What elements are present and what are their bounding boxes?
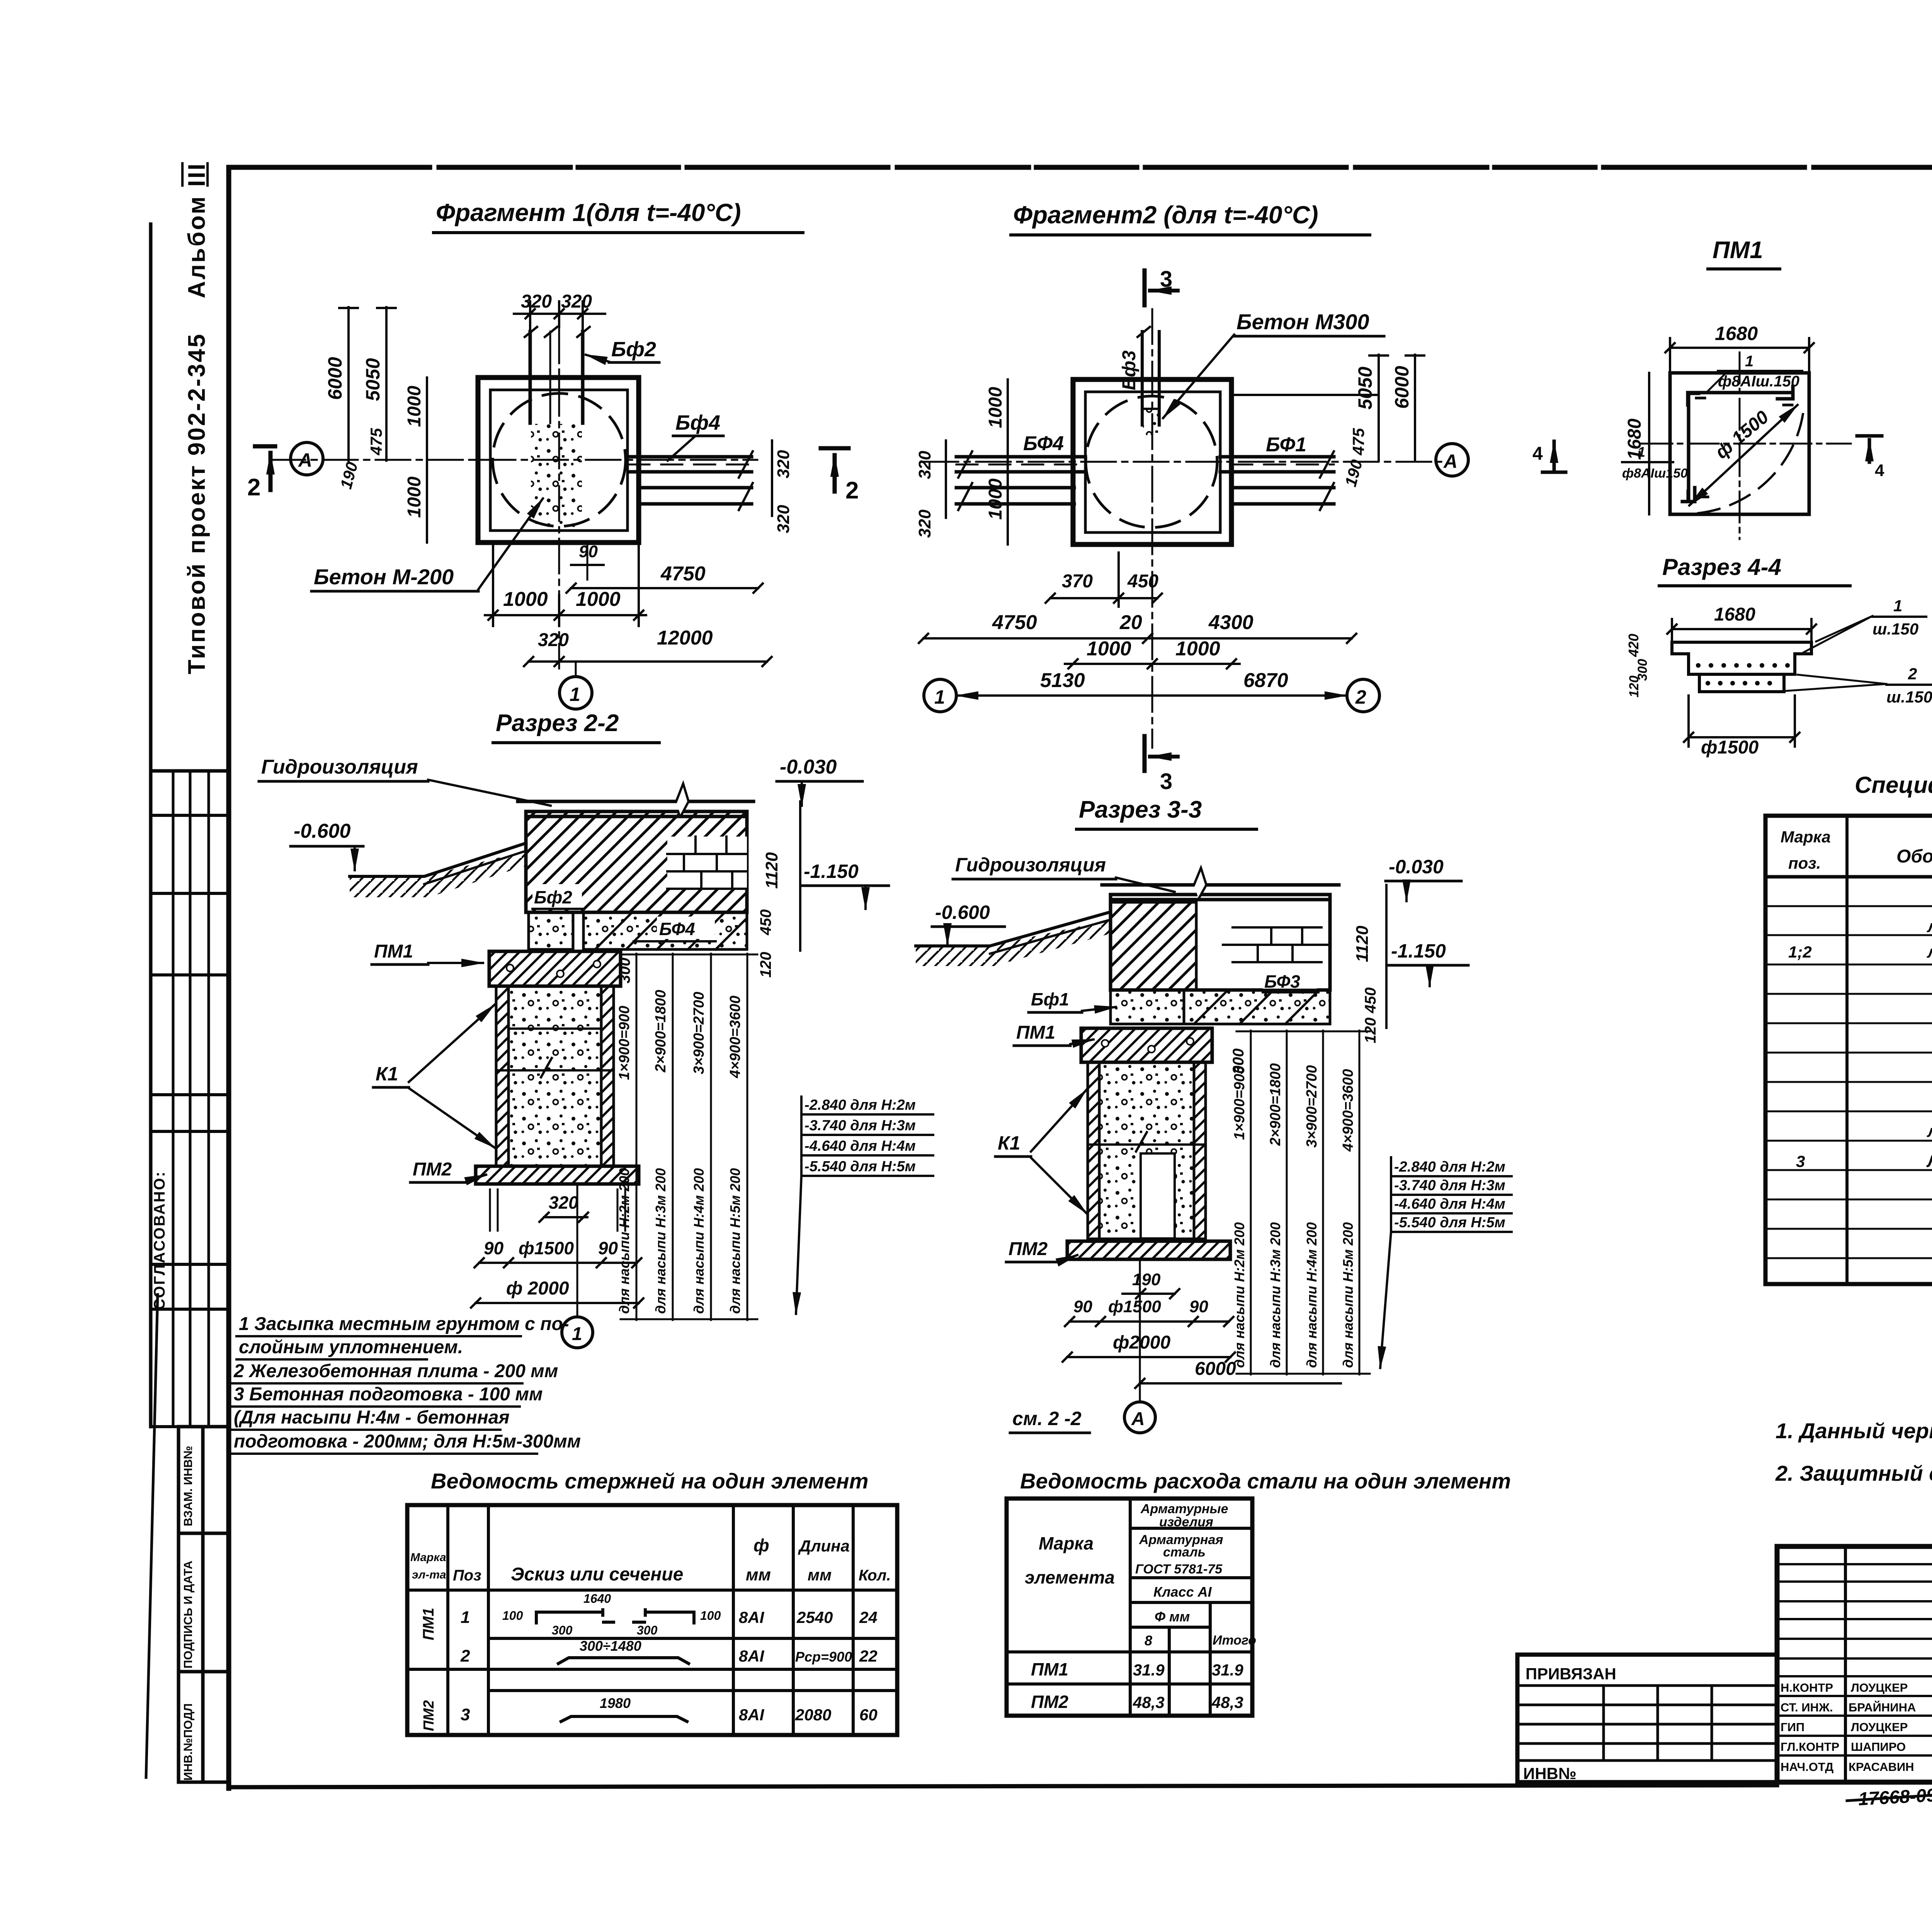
svg-text:120: 120 bbox=[757, 952, 774, 978]
svg-text:А: А bbox=[1443, 451, 1458, 472]
PM1 axis crosshair bbox=[1641, 443, 1851, 445]
svg-text:ПМ2: ПМ2 bbox=[1031, 1692, 1068, 1712]
svg-text:24: 24 bbox=[859, 1608, 878, 1626]
svg-text:-0.600: -0.600 bbox=[294, 820, 351, 842]
axis circle 1 (fragment 1) bbox=[560, 677, 592, 709]
svg-text:БФ1: БФ1 bbox=[1266, 434, 1306, 456]
svg-text:1000: 1000 bbox=[985, 387, 1006, 428]
brick patch in wall 3-3 bbox=[1223, 927, 1330, 962]
vedomost sterzhney table frame bbox=[407, 1505, 897, 1735]
beams band below wall 3-3 bbox=[1111, 990, 1184, 1024]
ground surface 3-3 bbox=[916, 912, 1111, 946]
svg-text:ш.150: ш.150 bbox=[1886, 688, 1932, 706]
beam BF3 plan (thin top strip) bbox=[1138, 327, 1159, 425]
svg-text:ИНВ.№ПОДЛ: ИНВ.№ПОДЛ bbox=[181, 1703, 195, 1781]
svg-text:ф: ф bbox=[753, 1535, 769, 1555]
axis circle 1 (2-2) bbox=[562, 1317, 593, 1348]
svg-text:1000: 1000 bbox=[404, 386, 425, 427]
svg-text:3: 3 bbox=[1160, 769, 1172, 794]
svg-text:Разрез 4-4: Разрез 4-4 bbox=[1662, 554, 1781, 580]
fragment 1 outer square bbox=[478, 378, 639, 543]
fragment 1 dashed pile circle bbox=[493, 393, 626, 526]
svg-text:Бф2: Бф2 bbox=[611, 338, 656, 361]
left lower stamp box bbox=[179, 1427, 229, 1782]
pier top plate PM1 (3-3) bbox=[1081, 1028, 1212, 1062]
svg-text:Н.КОНТР: Н.КОНТР bbox=[1781, 1681, 1833, 1694]
fragment 2 title underline bbox=[1011, 233, 1370, 236]
svg-text:-2.840 для Н:2м: -2.840 для Н:2м bbox=[804, 1097, 916, 1113]
svg-text:Типовой проект 902-2-345: Типовой проект 902-2-345 bbox=[184, 333, 210, 674]
svg-text:ШАПИРО: ШАПИРО bbox=[1851, 1740, 1906, 1754]
svg-text:90: 90 bbox=[579, 542, 598, 561]
svg-text:22: 22 bbox=[859, 1647, 878, 1665]
label BF2 in wall bbox=[532, 884, 582, 908]
svg-text:3×900=2700: 3×900=2700 bbox=[1304, 1065, 1320, 1148]
svg-text:Фрагмент 1(для t=-40°С): Фрагмент 1(для t=-40°С) bbox=[436, 199, 741, 226]
soil hatch band 2-2 bbox=[350, 851, 526, 897]
svg-text:190: 190 bbox=[1132, 1270, 1161, 1289]
levels stack (2-2) bbox=[804, 1097, 916, 1175]
beam BF2 plan (top strip) bbox=[525, 327, 590, 423]
pier bottom plate PM2 (3-3) bbox=[1067, 1241, 1230, 1259]
title block vertical dividers left part bbox=[1845, 1546, 1932, 1782]
svg-text:лист4: лист4 bbox=[1927, 917, 1932, 936]
PM1 left rebar with hooks bbox=[1682, 393, 1708, 502]
PM1 left dim 1680 rotated bbox=[1648, 373, 1650, 514]
left dim line 1000/1000 bbox=[1007, 379, 1009, 544]
section mark 4 right of PM1 bbox=[1857, 434, 1882, 438]
wall block 2-2 hatched bbox=[526, 811, 747, 912]
svg-text:ПМ1: ПМ1 bbox=[1031, 1659, 1068, 1679]
PM1 dashed pile arc bbox=[1698, 409, 1804, 513]
svg-text:4: 4 bbox=[1875, 461, 1884, 480]
svg-text:ПМ1: ПМ1 bbox=[1713, 237, 1763, 264]
specification table column lines bbox=[1847, 816, 1932, 1284]
svg-text:подготовка - 200мм; для Н:5м-3: подготовка - 200мм; для Н:5м-300мм bbox=[234, 1431, 581, 1452]
svg-text:НАЧ.ОТД: НАЧ.ОТД bbox=[1781, 1760, 1833, 1774]
svg-text:4: 4 bbox=[1532, 444, 1543, 464]
svg-text:-2.840 для Н:2м: -2.840 для Н:2м bbox=[1394, 1159, 1505, 1175]
specification table frame bbox=[1765, 816, 1932, 1284]
svg-text:ш.150: ш.150 bbox=[1872, 620, 1918, 638]
svg-text:2×900=1800: 2×900=1800 bbox=[1267, 1063, 1284, 1146]
svg-text:2×900=1800: 2×900=1800 bbox=[653, 990, 669, 1073]
svg-text:Класс АI: Класс АI bbox=[1153, 1584, 1212, 1600]
svg-text:элемента: элемента bbox=[1025, 1567, 1115, 1587]
svg-text:ф2000: ф2000 bbox=[1113, 1332, 1171, 1353]
svg-text:лист 4: лист 4 bbox=[1927, 942, 1932, 961]
svg-text:ПМ1: ПМ1 bbox=[1016, 1022, 1055, 1043]
axis circle 2 fragment 2 bbox=[1347, 679, 1379, 712]
svg-text:1;2: 1;2 bbox=[1788, 943, 1812, 961]
svg-text:ф1500: ф1500 bbox=[519, 1238, 574, 1258]
svg-text:2: 2 bbox=[460, 1647, 470, 1665]
svg-text:1: 1 bbox=[934, 686, 945, 708]
svg-text:320: 320 bbox=[521, 291, 552, 312]
svg-text:для насыпи Н:4м 200: для насыпи Н:4м 200 bbox=[691, 1168, 707, 1314]
svg-text:8АI: 8АI bbox=[739, 1608, 765, 1626]
left stamp strip outer line bbox=[149, 224, 153, 1427]
svg-text:1: 1 bbox=[570, 684, 580, 705]
svg-text:-4.640 для Н:4м: -4.640 для Н:4м bbox=[1394, 1196, 1505, 1212]
svg-text:Гидроизоляция: Гидроизоляция bbox=[955, 854, 1106, 876]
svg-text:для насыпи Н:3м 200: для насыпи Н:3м 200 bbox=[1267, 1222, 1283, 1368]
svg-text:-1.150: -1.150 bbox=[804, 861, 859, 882]
svg-text:1000: 1000 bbox=[404, 476, 425, 518]
svg-text:ф8АIш.150: ф8АIш.150 bbox=[1718, 373, 1799, 390]
svg-text:Итого: Итого bbox=[1213, 1633, 1256, 1648]
svg-text:-0.600: -0.600 bbox=[935, 902, 990, 923]
svg-text:370: 370 bbox=[1062, 571, 1093, 592]
svg-text:БРАЙНИНА: БРАЙНИНА bbox=[1849, 1700, 1916, 1714]
svg-text:КРАСАВИН: КРАСАВИН bbox=[1849, 1760, 1914, 1774]
svg-text:5130: 5130 bbox=[1040, 669, 1085, 692]
vedomost sterzhney column lines bbox=[448, 1505, 853, 1735]
svg-text:90: 90 bbox=[1189, 1297, 1208, 1316]
svg-text:ИНВ№: ИНВ№ bbox=[1523, 1764, 1577, 1783]
svg-text:48,3: 48,3 bbox=[1211, 1693, 1243, 1711]
left rotated dims 320/320 bbox=[945, 441, 947, 518]
svg-text:450: 450 bbox=[757, 909, 774, 936]
svg-text:1000: 1000 bbox=[503, 588, 548, 611]
pier column body (3-3) bbox=[1088, 1062, 1206, 1239]
svg-text:300÷1480: 300÷1480 bbox=[580, 1638, 641, 1654]
svg-text:120: 120 bbox=[1627, 675, 1641, 697]
razrez 4-4 rebar dots row 2 bbox=[1706, 681, 1772, 685]
svg-text:-0.030: -0.030 bbox=[780, 756, 837, 778]
svg-text:Бетон М-200: Бетон М-200 bbox=[314, 565, 454, 589]
svg-text:420: 420 bbox=[1626, 634, 1641, 657]
left stamp strip sloped outer line lower bbox=[146, 1294, 158, 1778]
svg-text:12000: 12000 bbox=[657, 627, 713, 649]
svg-text:Поз: Поз bbox=[453, 1567, 481, 1584]
sheet frame: left border bbox=[226, 167, 231, 1788]
svg-text:475: 475 bbox=[367, 428, 385, 456]
svg-text:Арматурные: Арматурные bbox=[1140, 1502, 1228, 1516]
beam BF4 plan (right strips) bbox=[628, 451, 753, 510]
svg-text:1120: 1120 bbox=[1353, 925, 1372, 962]
svg-text:ПМ2: ПМ2 bbox=[421, 1700, 437, 1731]
svg-text:БФ4: БФ4 bbox=[659, 919, 695, 939]
svg-text:1640: 1640 bbox=[583, 1592, 611, 1606]
svg-text:Длина: Длина bbox=[798, 1537, 850, 1555]
svg-text:Альбом III: Альбом III bbox=[184, 162, 210, 298]
svg-text:Ф мм: Ф мм bbox=[1155, 1609, 1190, 1624]
svg-text:-0.030: -0.030 bbox=[1389, 856, 1444, 878]
svg-text:ПМ2: ПМ2 bbox=[1009, 1239, 1048, 1259]
wall waterproofing double top line bbox=[518, 800, 753, 803]
right dim lines 5050 6000 bbox=[1231, 355, 1424, 461]
privyazan grid bbox=[1517, 1686, 1777, 1761]
svg-text:2: 2 bbox=[845, 477, 859, 504]
svg-text:мм: мм bbox=[808, 1566, 832, 1584]
axis circle 1 fragment 2 bbox=[924, 679, 956, 712]
privyazan block frame bbox=[1517, 1655, 1777, 1782]
svg-text:для насыпи Н:2м 200: для насыпи Н:2м 200 bbox=[616, 1168, 632, 1314]
pier bottom plate PM2 (2-2) bbox=[476, 1166, 639, 1184]
fragment 1 horizontal axis line bbox=[270, 459, 757, 461]
axis circle A bbox=[291, 442, 323, 475]
pier top plate PM1 (2-2) bbox=[489, 951, 621, 986]
svg-text:изделия: изделия bbox=[1159, 1515, 1213, 1529]
svg-text:ф8АIш150: ф8АIш150 bbox=[1622, 466, 1688, 481]
svg-text:1000: 1000 bbox=[576, 588, 621, 611]
svg-text:сталь: сталь bbox=[1163, 1545, 1206, 1560]
svg-text:2 Железобетонная плита - 200 м: 2 Железобетонная плита - 200 мм bbox=[233, 1361, 558, 1381]
razrez 4-4 rebar dots row 1 bbox=[1696, 663, 1790, 668]
axis circle A fragment 2 bbox=[1436, 444, 1468, 476]
svg-text:6000: 6000 bbox=[1391, 366, 1413, 409]
svg-text:4×900=3600: 4×900=3600 bbox=[727, 996, 743, 1078]
svg-text:Спецификация к монолитным элем: Спецификация к монолитным элементам опор bbox=[1855, 772, 1932, 798]
svg-text:ПОДПИСЬ И ДАТА: ПОДПИСЬ И ДАТА bbox=[181, 1561, 195, 1669]
ground surface 2-2 bbox=[350, 843, 526, 876]
svg-text:см. 2 -2: см. 2 -2 bbox=[1012, 1408, 1082, 1429]
svg-text:100: 100 bbox=[700, 1609, 721, 1623]
label BF4 in band bbox=[657, 917, 715, 939]
svg-text:лист 4: лист 4 bbox=[1927, 1122, 1932, 1141]
svg-text:ПМ1: ПМ1 bbox=[420, 1608, 437, 1640]
svg-text:Рср=900: Рср=900 bbox=[795, 1649, 852, 1665]
svg-text:Бф2: Бф2 bbox=[534, 887, 572, 907]
svg-text:для насыпи Н:3м 200: для насыпи Н:3м 200 bbox=[653, 1168, 668, 1314]
svg-text:БФ3: БФ3 bbox=[1264, 971, 1300, 992]
beam BF1 plan right strips bbox=[1220, 451, 1334, 510]
svg-text:1000: 1000 bbox=[1175, 638, 1220, 660]
svg-text:1680: 1680 bbox=[1624, 418, 1645, 460]
svg-text:320: 320 bbox=[538, 630, 569, 650]
brick patch in wall 2-2 bbox=[667, 837, 747, 889]
sheet frame: bottom border bbox=[229, 1785, 1777, 1787]
svg-text:1: 1 bbox=[1893, 597, 1902, 615]
specification table row lines bbox=[1765, 906, 1932, 1258]
fragment 2 outer square bbox=[1073, 379, 1231, 544]
svg-text:320: 320 bbox=[774, 450, 793, 478]
svg-text:1000: 1000 bbox=[985, 478, 1006, 520]
svg-text:Гидроизоляция: Гидроизоляция bbox=[261, 756, 418, 778]
svg-text:3×900=2700: 3×900=2700 bbox=[691, 992, 707, 1074]
svg-text:-3.740 для Н:3м: -3.740 для Н:3м bbox=[804, 1118, 916, 1134]
svg-text:1×900=900: 1×900=900 bbox=[616, 1006, 633, 1080]
svg-text:Эскиз или сечение: Эскиз или сечение bbox=[511, 1564, 683, 1585]
svg-text:3: 3 bbox=[461, 1705, 470, 1724]
svg-text:слойным уплотнением.: слойным уплотнением. bbox=[239, 1337, 463, 1357]
fragment 2 vertical axis line bbox=[1151, 309, 1153, 748]
svg-text:К1: К1 bbox=[998, 1132, 1020, 1154]
left stamp table column lines bbox=[173, 771, 209, 1427]
right rotated dims 320/320 bbox=[771, 441, 773, 516]
svg-text:8АI: 8АI bbox=[739, 1706, 765, 1724]
svg-text:-1.150: -1.150 bbox=[1391, 940, 1446, 962]
svg-text:1000: 1000 bbox=[1087, 638, 1131, 660]
svg-text:4×900=3600: 4×900=3600 bbox=[1340, 1069, 1356, 1152]
svg-text:90: 90 bbox=[1073, 1297, 1092, 1316]
svg-text:Разрез 2-2: Разрез 2-2 bbox=[496, 710, 619, 737]
soil hatch band 3-3 bbox=[916, 920, 1111, 966]
svg-text:3: 3 bbox=[1796, 1152, 1805, 1170]
svg-text:ф1500: ф1500 bbox=[1108, 1297, 1161, 1316]
svg-text:1. Данный чертеж смотри совме: 1. Данный чертеж смотри совместно с черт… bbox=[1776, 1419, 1932, 1443]
svg-text:А: А bbox=[298, 449, 312, 471]
svg-text:5050: 5050 bbox=[1354, 367, 1376, 410]
svg-text:для насыпи Н:2м 200: для насыпи Н:2м 200 bbox=[1231, 1222, 1247, 1368]
svg-text:450: 450 bbox=[1127, 571, 1158, 592]
svg-text:ф1500: ф1500 bbox=[1701, 737, 1759, 758]
svg-text:ф 2000: ф 2000 bbox=[506, 1278, 569, 1299]
fragment 2 dashed pile circle bbox=[1086, 396, 1217, 527]
svg-text:ВЗАМ. ИНВ№: ВЗАМ. ИНВ№ bbox=[181, 1446, 195, 1526]
svg-text:60: 60 bbox=[859, 1706, 878, 1724]
PM1 square bbox=[1670, 373, 1809, 514]
svg-text:4300: 4300 bbox=[1208, 611, 1253, 634]
right dim chain lines (3-3) bbox=[1236, 1031, 1370, 1374]
svg-text:320: 320 bbox=[915, 451, 934, 479]
svg-text:БФ4: БФ4 bbox=[1023, 432, 1064, 455]
concrete fill in fragment 1 center bbox=[531, 424, 582, 529]
svg-text:120: 120 bbox=[1362, 1017, 1379, 1043]
fragment 2 horizontal axis line bbox=[923, 461, 1441, 463]
svg-text:-4.640 для Н:4м: -4.640 для Н:4м bbox=[804, 1138, 916, 1154]
svg-text:300: 300 bbox=[637, 1623, 658, 1637]
razrez 4-4 slab section bbox=[1672, 642, 1811, 692]
svg-text:1680: 1680 bbox=[1715, 323, 1758, 344]
svg-text:Бетон М300: Бетон М300 bbox=[1236, 310, 1369, 334]
svg-text:Обозначение: Обозначение bbox=[1896, 846, 1932, 867]
svg-text:Ведомость стержней на один эле: Ведомость стержней на один элемент bbox=[431, 1469, 869, 1493]
svg-text:1120: 1120 bbox=[762, 852, 781, 889]
wall break squiggle top bbox=[676, 784, 689, 816]
right wall dim 1120 (2-2) bbox=[799, 801, 801, 951]
svg-text:2: 2 bbox=[1355, 686, 1366, 708]
svg-text:ЛОУЦКЕР: ЛОУЦКЕР bbox=[1851, 1720, 1908, 1734]
svg-text:48,3: 48,3 bbox=[1133, 1693, 1165, 1711]
svg-text:Бф1: Бф1 bbox=[1031, 989, 1069, 1009]
svg-text:320: 320 bbox=[915, 509, 934, 538]
svg-text:ЛОУЦКЕР: ЛОУЦКЕР bbox=[1851, 1681, 1908, 1694]
svg-text:поз.: поз. bbox=[1788, 854, 1821, 872]
svg-text:20: 20 bbox=[1119, 611, 1142, 634]
svg-text:6000: 6000 bbox=[324, 357, 346, 400]
svg-text:для насыпи Н:4м 200: для насыпи Н:4м 200 bbox=[1304, 1222, 1320, 1368]
svg-text:мм: мм bbox=[746, 1565, 771, 1584]
left stamp table top line bbox=[151, 769, 229, 773]
PM1 diagonal diameter arrow bbox=[1689, 405, 1798, 505]
concrete patch BF3 bbox=[1143, 410, 1158, 435]
fragment 1 vertical axis line bbox=[558, 328, 560, 668]
svg-text:2. Защитный слой Бетона плит П: 2. Защитный слой Бетона плит Пм1, Пм2 - … bbox=[1775, 1461, 1932, 1485]
pier column body (2-2) bbox=[496, 986, 614, 1166]
svg-text:для насыпи Н:5м 200: для насыпи Н:5м 200 bbox=[727, 1168, 743, 1314]
svg-text:1980: 1980 bbox=[600, 1695, 631, 1711]
wall block 3-3 bbox=[1111, 895, 1330, 990]
svg-text:СОГЛАСОВАНО:: СОГЛАСОВАНО: bbox=[151, 1170, 168, 1310]
svg-text:Ведомость расхода стали на оди: Ведомость расхода стали на один элемент bbox=[1020, 1469, 1511, 1493]
svg-text:К1: К1 bbox=[376, 1063, 398, 1085]
svg-text:1 Засыпка местным грунтом с по: 1 Засыпка местным грунтом с по- bbox=[239, 1314, 569, 1334]
svg-text:ГОСТ 5781-75: ГОСТ 5781-75 bbox=[1135, 1562, 1223, 1577]
fragment 2 inner square bbox=[1085, 392, 1220, 532]
svg-text:90: 90 bbox=[598, 1238, 618, 1258]
fragment 1 title underline bbox=[434, 231, 803, 234]
svg-text:ГЛ.КОНТР: ГЛ.КОНТР bbox=[1781, 1740, 1839, 1754]
vedomost sterzhney row lines bbox=[407, 1590, 897, 1691]
svg-text:ф 1500: ф 1500 bbox=[1711, 407, 1773, 463]
title block signature row lines bbox=[1777, 1564, 1932, 1755]
beam BF4 plan left strips bbox=[956, 451, 1085, 510]
sheet frame: top border (dashed photocopy look) bbox=[229, 165, 1932, 170]
axis circle A (3-3) bbox=[1124, 1402, 1155, 1433]
BF2 beam block below wall bbox=[529, 912, 573, 949]
svg-text:8АI: 8АI bbox=[739, 1647, 765, 1665]
BF4 beam band below wall bbox=[583, 912, 747, 949]
svg-text:А: А bbox=[1131, 1409, 1145, 1429]
svg-text:475: 475 bbox=[1349, 428, 1367, 456]
svg-text:ПРИВЯЗАН: ПРИВЯЗАН bbox=[1526, 1665, 1616, 1683]
svg-text:Кол.: Кол. bbox=[859, 1567, 891, 1584]
svg-text:для насыпи Н:5м 200: для насыпи Н:5м 200 bbox=[1340, 1222, 1356, 1368]
svg-text:300: 300 bbox=[616, 958, 633, 983]
svg-text:8: 8 bbox=[1145, 1633, 1152, 1648]
svg-text:3: 3 bbox=[1160, 267, 1172, 292]
svg-text:ГИП: ГИП bbox=[1781, 1720, 1804, 1734]
svg-text:450: 450 bbox=[1362, 987, 1379, 1014]
svg-text:1680: 1680 bbox=[1714, 604, 1755, 625]
label BF3 in wall (3-3) bbox=[1263, 969, 1317, 991]
svg-text:4750: 4750 bbox=[992, 611, 1037, 634]
svg-text:эл-та: эл-та bbox=[412, 1568, 446, 1581]
svg-text:31.9: 31.9 bbox=[1133, 1661, 1165, 1679]
svg-text:Марка: Марка bbox=[1781, 828, 1831, 846]
svg-text:1: 1 bbox=[572, 1324, 582, 1344]
svg-text:2: 2 bbox=[247, 474, 260, 501]
left dim lines 6000 and 5050 bbox=[339, 307, 396, 461]
pile dashed edges below plate (2-2) bbox=[490, 1189, 625, 1231]
svg-text:-5.540 для Н:5м: -5.540 для Н:5м bbox=[1394, 1214, 1505, 1231]
signature names column bbox=[1781, 1681, 1916, 1774]
svg-text:Бф4: Бф4 bbox=[675, 411, 720, 434]
levels stack (3-3) bbox=[1394, 1159, 1505, 1231]
svg-text:(Для насыпи Н:4м - бетонная: (Для насыпи Н:4м - бетонная bbox=[234, 1407, 510, 1428]
svg-text:-5.540 для Н:5м: -5.540 для Н:5м bbox=[804, 1158, 916, 1175]
right dim chain lines (2-2) bbox=[621, 954, 757, 1320]
svg-text:320: 320 bbox=[774, 505, 793, 533]
svg-text:2540: 2540 bbox=[796, 1608, 833, 1626]
title block frame bbox=[1777, 1546, 1932, 1782]
axis dim line 5130 6870 bbox=[957, 694, 1346, 697]
svg-text:1: 1 bbox=[461, 1608, 470, 1627]
vedomost stali inner lines bbox=[1007, 1499, 1252, 1716]
svg-text:100: 100 bbox=[502, 1609, 523, 1623]
svg-text:Бф3: Бф3 bbox=[1119, 350, 1139, 390]
svg-text:300: 300 bbox=[552, 1623, 573, 1637]
fragment 1 inner square bbox=[490, 390, 628, 531]
left dim line 1000/1000 bbox=[426, 378, 428, 543]
svg-text:5050: 5050 bbox=[362, 358, 384, 401]
svg-text:2080: 2080 bbox=[795, 1706, 831, 1724]
svg-text:190: 190 bbox=[337, 460, 361, 491]
svg-text:Фрагмент2 (для t=-40°С): Фрагмент2 (для t=-40°С) bbox=[1013, 201, 1318, 229]
svg-text:СТ. ИНЖ.: СТ. ИНЖ. bbox=[1781, 1701, 1833, 1714]
svg-text:31.9: 31.9 bbox=[1212, 1661, 1243, 1679]
svg-text:ПМ2: ПМ2 bbox=[413, 1159, 452, 1180]
svg-text:6870: 6870 bbox=[1243, 669, 1288, 692]
svg-text:1×900=900: 1×900=900 bbox=[1231, 1066, 1248, 1140]
specification table header line bbox=[1765, 875, 1932, 879]
left stamp table row lines bbox=[151, 815, 229, 1427]
svg-text:Лист 4: Лист 4 bbox=[1926, 1152, 1932, 1171]
svg-text:320: 320 bbox=[549, 1192, 578, 1213]
notes list under 2-2 bbox=[233, 1314, 581, 1452]
